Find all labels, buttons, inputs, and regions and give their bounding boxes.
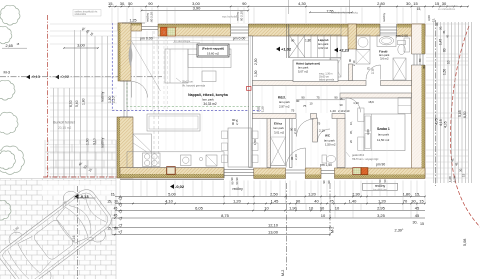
svg-text:3,00: 3,00 [427, 15, 431, 21]
svg-text:90: 90 [148, 1, 153, 6]
svg-text:5,16: 5,16 [72, 235, 76, 242]
svg-text:15,: 15, [111, 193, 116, 197]
svg-text:wpc burkolat: wpc burkolat [222, 14, 237, 18]
svg-text:3,25: 3,25 [377, 213, 386, 218]
svg-text:30,: 30, [114, 200, 119, 204]
svg-text:75: 75 [291, 109, 295, 113]
svg-text:1,50: 1,50 [254, 70, 258, 77]
svg-text:Szoba 1: Szoba 1 [377, 127, 390, 131]
svg-text:1,20: 1,20 [233, 198, 242, 203]
svg-text:1,80: 1,80 [403, 191, 412, 196]
svg-text:10: 10 [309, 205, 314, 210]
svg-text:lam.park: lam.park [202, 98, 214, 102]
svg-text:+2,23: +2,23 [339, 48, 350, 53]
svg-text:1,50: 1,50 [443, 69, 447, 75]
svg-text:1,20: 1,20 [378, 198, 387, 203]
svg-text:45: 45 [415, 213, 420, 218]
svg-text:20,15 m2: 20,15 m2 [58, 126, 72, 130]
svg-text:90: 90 [320, 205, 325, 210]
svg-text:12,10: 12,10 [268, 222, 279, 227]
svg-text:30,: 30, [413, 221, 418, 225]
svg-text:meg.: 1,36 m: meg.: 1,36 m [319, 74, 332, 76]
svg-text:15,: 15, [415, 191, 421, 196]
svg-text:1,20: 1,20 [308, 191, 317, 196]
svg-text:75: 75 [316, 96, 320, 100]
svg-text:4,30: 4,30 [298, 1, 307, 6]
svg-text:szélvédős: szélvédős [75, 12, 87, 16]
svg-text:80: 80 [418, 58, 422, 62]
svg-text:15: 15 [419, 198, 424, 203]
svg-text:Lépcső: Lépcső [318, 38, 329, 42]
svg-text:3,00: 3,00 [366, 129, 370, 135]
svg-text:1,40: 1,40 [349, 198, 358, 203]
svg-text:90: 90 [242, 1, 247, 6]
svg-text:45,: 45, [451, 158, 455, 162]
svg-text:2,10: 2,10 [112, 96, 116, 103]
svg-text:2,39°: 2,39° [395, 229, 404, 233]
svg-text:50: 50 [128, 1, 133, 6]
svg-text:10: 10 [335, 205, 340, 210]
svg-text:lam.park: lam.park [279, 100, 290, 104]
svg-text:redőny: redőny [101, 91, 105, 102]
svg-text:5,07 m2: 5,07 m2 [298, 70, 309, 74]
svg-text:HILTI kém.: anyagi rögz.: HILTI kém.: anyagi rögz. [352, 158, 379, 161]
svg-text:4,02 m2: 4,02 m2 [318, 46, 329, 50]
svg-text:45,: 45, [455, 162, 459, 166]
svg-text:15,: 15, [108, 1, 114, 6]
svg-text:10: 10 [310, 102, 313, 106]
svg-text:35,: 35, [349, 130, 353, 134]
svg-text:redőny: redőny [233, 187, 244, 191]
svg-text:lam.park: lam.park [274, 126, 285, 130]
svg-text:pm 0.00: pm 0.00 [396, 34, 408, 38]
svg-text:2,65: 2,65 [6, 44, 13, 48]
svg-text:15: 15 [420, 222, 424, 226]
svg-text:6,50: 6,50 [463, 111, 467, 118]
svg-text:90: 90 [301, 96, 305, 100]
svg-text:30,: 30, [406, 1, 412, 6]
svg-text:4,10: 4,10 [165, 198, 174, 203]
svg-text:3,90: 3,90 [193, 5, 202, 10]
svg-text:1,90: 1,90 [86, 138, 90, 145]
svg-text:3,10: 3,10 [93, 138, 97, 145]
svg-text:34,33 m2: 34,33 m2 [203, 102, 217, 106]
svg-text:+1,02: +1,02 [281, 47, 292, 52]
svg-text:30,: 30, [411, 198, 417, 203]
svg-text:Nappali, étkező, konyha: Nappali, étkező, konyha [188, 93, 228, 97]
svg-text:redőny: redőny [101, 137, 105, 148]
svg-text:30,: 30, [459, 168, 463, 172]
svg-text:redőny: redőny [382, 12, 386, 22]
svg-text:Elősz: Elősz [274, 122, 283, 126]
svg-text:M-3: M-3 [4, 71, 11, 75]
svg-text:2,10: 2,10 [293, 128, 297, 134]
svg-text:30,: 30, [120, 1, 126, 6]
svg-text:13,00: 13,00 [268, 229, 279, 234]
svg-text:WC: WC [325, 134, 331, 138]
svg-text:80: 80 [443, 48, 447, 52]
svg-text:Vb. koszorú gerenda: Vb. koszorú gerenda [182, 85, 206, 88]
svg-text:90: 90 [235, 177, 239, 181]
svg-text:3,01 m2: 3,01 m2 [274, 131, 285, 135]
svg-text:2,10: 2,10 [344, 109, 350, 113]
svg-text:18,9: 18,9 [368, 100, 374, 104]
svg-text:6,50: 6,50 [69, 100, 73, 107]
svg-text:45: 45 [114, 214, 118, 218]
svg-text:2,50: 2,50 [254, 58, 258, 65]
svg-text:70: 70 [403, 198, 408, 203]
svg-text:és szélvédőzés: és szélvédőzés [438, 8, 456, 11]
svg-text:1,50 m2: 1,50 m2 [325, 143, 336, 147]
svg-text:90: 90 [230, 177, 234, 181]
svg-text:4,15: 4,15 [439, 119, 443, 126]
svg-text:1,90: 1,90 [289, 205, 298, 210]
svg-text:2,95: 2,95 [377, 205, 386, 210]
svg-text:19,60 m2: 19,60 m2 [207, 52, 219, 56]
svg-text:90: 90 [296, 99, 300, 103]
svg-text:30,: 30, [114, 227, 119, 231]
svg-text:-0,02: -0,02 [175, 184, 185, 189]
svg-text:1,80: 1,80 [82, 98, 86, 105]
svg-text:2,30: 2,30 [352, 191, 361, 196]
svg-text:-0,13: -0,13 [80, 194, 90, 199]
svg-text:2,97 m2: 2,97 m2 [279, 105, 290, 109]
svg-text:10: 10 [264, 205, 269, 210]
svg-text:90: 90 [334, 96, 338, 100]
svg-text:10: 10 [321, 213, 326, 218]
svg-text:Fürdő: Fürdő [379, 50, 388, 54]
svg-text:4,05: 4,05 [444, 121, 448, 128]
svg-text:6,05: 6,05 [195, 205, 204, 210]
svg-text:Közl.: Közl. [278, 96, 286, 100]
svg-text:1,45: 1,45 [271, 198, 280, 203]
svg-text:1,80: 1,80 [305, 39, 311, 43]
svg-text:1,20: 1,20 [261, 106, 265, 112]
svg-text:45: 45 [446, 34, 450, 38]
svg-text:2,10: 2,10 [352, 60, 356, 66]
svg-text:1,45: 1,45 [439, 39, 443, 45]
svg-text:(Fedett nappali): (Fedett nappali) [202, 47, 224, 51]
svg-text:90: 90 [291, 39, 295, 43]
svg-text:15,: 15, [417, 7, 422, 11]
svg-text:5,85: 5,85 [458, 110, 462, 117]
svg-text:3,6 m2: 3,6 m2 [380, 57, 389, 61]
svg-text:75: 75 [317, 122, 321, 126]
svg-text:5,60: 5,60 [75, 100, 79, 107]
svg-text:2,10: 2,10 [319, 129, 325, 133]
svg-text:2,15: 2,15 [235, 119, 239, 125]
svg-text:1,50: 1,50 [253, 139, 257, 145]
svg-text:5,08: 5,08 [463, 239, 467, 246]
svg-text:45: 45 [114, 207, 118, 211]
svg-text:Hátsó (gépészet): Hátsó (gépészet) [296, 62, 320, 66]
svg-text:pm 0.00: pm 0.00 [140, 36, 153, 40]
svg-text:2,10: 2,10 [338, 109, 344, 113]
svg-text:pm 90: pm 90 [376, 163, 385, 167]
svg-text:km demolingia: km demolingia [174, 40, 191, 43]
svg-text:20,: 20, [439, 26, 443, 30]
svg-text:90: 90 [296, 198, 301, 203]
svg-text:45,: 45, [442, 30, 446, 34]
svg-text:60 2,10: 60 2,10 [150, 12, 154, 22]
svg-text:pm 1,50: pm 1,50 [320, 163, 332, 167]
svg-text:35x12 cm: 35x12 cm [182, 81, 193, 84]
svg-text:3,00: 3,00 [77, 43, 86, 48]
svg-text:10,: 10, [349, 121, 353, 125]
svg-text:45: 45 [415, 205, 420, 210]
svg-text:gekkó Ø10: gekkó Ø10 [352, 154, 365, 157]
svg-text:M-2: M-2 [331, 227, 335, 233]
svg-text:km elöröl függ: km elöröl függ [373, 188, 388, 191]
svg-text:60 2,10: 60 2,10 [240, 11, 244, 21]
svg-text:90: 90 [322, 180, 326, 184]
svg-text:-0,02: -0,02 [60, 74, 70, 79]
svg-text:4,75: 4,75 [435, 118, 439, 125]
svg-text:Burkolt felület: Burkolt felület [53, 121, 75, 125]
svg-text:2,80: 2,80 [377, 1, 386, 6]
svg-text:8,75: 8,75 [221, 213, 230, 218]
svg-text:11,50 m2: 11,50 m2 [377, 138, 390, 142]
svg-text:M-2: M-2 [281, 270, 285, 276]
svg-text:80: 80 [422, 65, 426, 69]
svg-text:falazó gerenda: falazó gerenda [319, 79, 335, 82]
svg-text:40: 40 [314, 198, 319, 203]
svg-text:15,: 15, [432, 18, 436, 22]
svg-text:1,20: 1,20 [330, 109, 336, 113]
svg-text:pm 0.00: pm 0.00 [233, 36, 246, 40]
svg-text:15,: 15, [107, 200, 112, 204]
svg-text:kávézányi közterasszig: kávézányi közterasszig [331, 11, 358, 15]
svg-text:30x50 cm: 30x50 cm [319, 77, 329, 79]
svg-text:10: 10 [447, 60, 451, 64]
svg-text:90: 90 [327, 180, 331, 184]
svg-text:lam.park: lam.park [378, 133, 390, 137]
svg-text:2,50: 2,50 [270, 191, 279, 196]
svg-text:1,20: 1,20 [448, 176, 452, 182]
svg-text:5,00: 5,00 [168, 191, 177, 196]
svg-text:2,10: 2,10 [371, 68, 375, 74]
svg-text:15: 15 [413, 1, 418, 6]
svg-text:-0,15: -0,15 [31, 74, 41, 79]
svg-text:1,20: 1,20 [453, 176, 457, 182]
